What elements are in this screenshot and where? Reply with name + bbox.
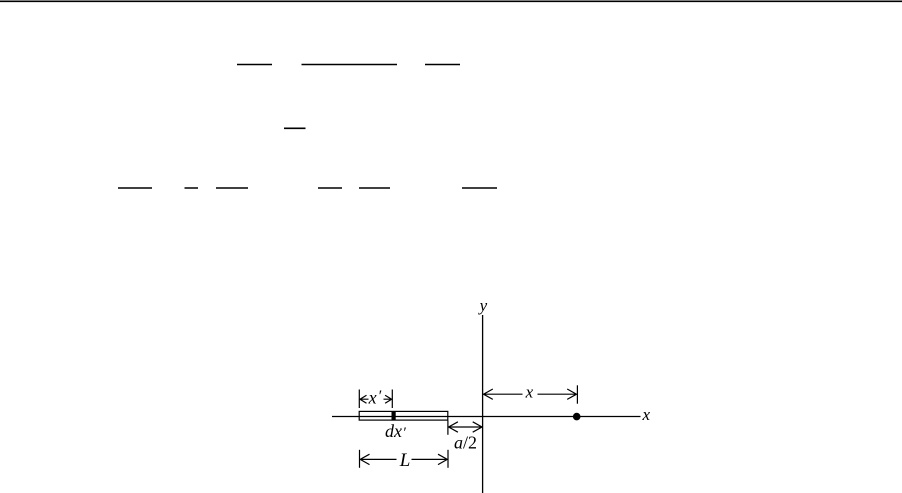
top page rule	[0, 0, 902, 2]
equation row 1 fraction bar 1	[237, 64, 272, 66]
x' dimension right arrow	[384, 395, 392, 403]
L dimension right tick	[447, 450, 449, 468]
equation row 1 fraction bar 2	[302, 64, 398, 66]
svg-text:a/2: a/2	[454, 433, 477, 453]
L dimension left tick	[359, 450, 361, 468]
equation row 2 fraction bar	[284, 127, 306, 129]
equation row 3 minus sign	[185, 187, 199, 189]
x-axis	[332, 416, 641, 418]
equation row 3 fraction bar 2	[216, 187, 248, 189]
svg-text:x′: x′	[368, 388, 382, 408]
charge element dx' (black square)	[392, 411, 396, 420]
x dimension arrow right head at tick	[538, 389, 577, 399]
svg-text:L: L	[399, 450, 411, 471]
L dimension left arrow	[360, 454, 396, 464]
x' dimension left arrow	[360, 395, 369, 403]
equation row 1 fraction bar 3	[425, 64, 460, 66]
svg-text:x: x	[642, 405, 651, 424]
equation row 3 fraction bar 1	[118, 187, 152, 189]
svg-text:y: y	[478, 296, 488, 315]
a/2 double-headed arrow	[449, 422, 482, 432]
rod (charged bar)	[359, 411, 448, 420]
x dimension arrow left head at y-axis	[484, 389, 523, 399]
L dimension right arrow	[412, 454, 448, 464]
field point (black dot)	[573, 413, 581, 421]
svg-text:x: x	[525, 383, 534, 402]
x' dimension left tick	[358, 390, 360, 409]
x' dimension right tick	[391, 390, 393, 409]
a/2 dimension tick below rod right edge	[447, 421, 449, 435]
equation row 3 fraction bar 3	[318, 187, 342, 189]
equation row 3 fraction bar 5	[462, 187, 497, 189]
x dimension tick	[576, 385, 578, 403]
equation row 3 fraction bar 4	[359, 187, 390, 189]
y-axis	[482, 315, 484, 493]
